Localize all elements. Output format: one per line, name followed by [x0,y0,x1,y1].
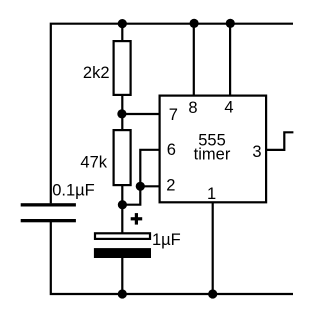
svg-text:6: 6 [167,141,176,159]
svg-text:4: 4 [224,98,233,116]
svg-text:2: 2 [166,177,175,195]
svg-text:0.1µF: 0.1µF [52,182,95,200]
svg-text:timer: timer [194,145,231,163]
svg-text:3: 3 [252,143,261,161]
svg-text:8: 8 [188,99,197,117]
svg-text:1: 1 [207,185,216,203]
svg-text:7: 7 [169,106,178,124]
svg-text:2k2: 2k2 [83,64,110,82]
svg-text:1µF: 1µF [152,231,181,249]
svg-text:47k: 47k [80,153,107,171]
